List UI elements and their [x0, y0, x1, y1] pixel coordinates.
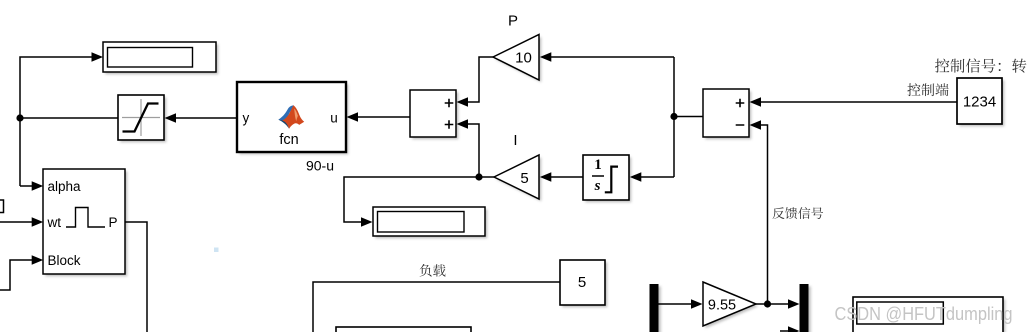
svg-text:90-u: 90-u — [306, 158, 334, 174]
svg-text:1: 1 — [594, 157, 602, 173]
svg-text:y: y — [243, 111, 250, 126]
svg-text:1234: 1234 — [963, 94, 996, 111]
svg-text:I: I — [513, 132, 517, 149]
svg-text:5: 5 — [578, 274, 586, 291]
svg-text:9.55: 9.55 — [708, 298, 736, 314]
svg-text:10: 10 — [515, 50, 532, 67]
svg-text:alpha: alpha — [48, 179, 82, 194]
svg-text:P: P — [508, 13, 518, 30]
svg-text:P: P — [108, 215, 117, 230]
svg-text:5: 5 — [520, 170, 528, 187]
svg-text:Block: Block — [48, 253, 81, 268]
svg-text:s: s — [594, 178, 601, 194]
svg-text:CSDN @HFUTdumpling: CSDN @HFUTdumpling — [835, 304, 1013, 324]
svg-text:u: u — [330, 111, 338, 126]
svg-text:fcn: fcn — [279, 132, 298, 148]
svg-text:wt: wt — [47, 215, 62, 230]
